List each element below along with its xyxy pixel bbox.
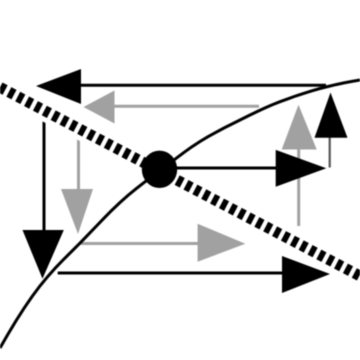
gray arrowhead pointing down <box>61 189 93 234</box>
fixed point dot <box>142 151 177 188</box>
gray cobweb path segment: bottom horizontal <box>81 242 198 245</box>
gray arrowhead pointing left <box>84 91 115 124</box>
black cobweb path segment: shaft from dot to right <box>160 167 276 170</box>
black arrowhead pointing down (left) <box>23 230 64 279</box>
black arrowhead pointing right (middle, from dot) <box>276 150 327 187</box>
black cobweb path segment: top horizontal <box>50 84 326 87</box>
white halo under dashed identity line <box>0 87 360 276</box>
gray cobweb path segment: left vertical from diagonal to arrow <box>77 127 80 192</box>
gray arrowhead pointing right <box>198 224 246 262</box>
thick dashed identity line <box>0 87 360 276</box>
black cobweb path segment: left vertical from diagonal to arrow <box>43 112 46 232</box>
black cobweb path segment: bottom horizontal <box>58 272 282 275</box>
function curve <box>0 80 360 348</box>
black arrowhead pointing right (bottom) <box>282 256 330 293</box>
gray cobweb path segment: right vertical <box>297 149 300 226</box>
black cobweb path segment: short vertical under up-arrow <box>329 138 331 168</box>
black arrowhead pointing up (right) <box>315 93 348 138</box>
black arrowhead pointing left (top) <box>36 69 81 104</box>
gray cobweb path segment: top horizontal <box>90 105 259 108</box>
gray arrowhead pointing up <box>282 105 317 150</box>
